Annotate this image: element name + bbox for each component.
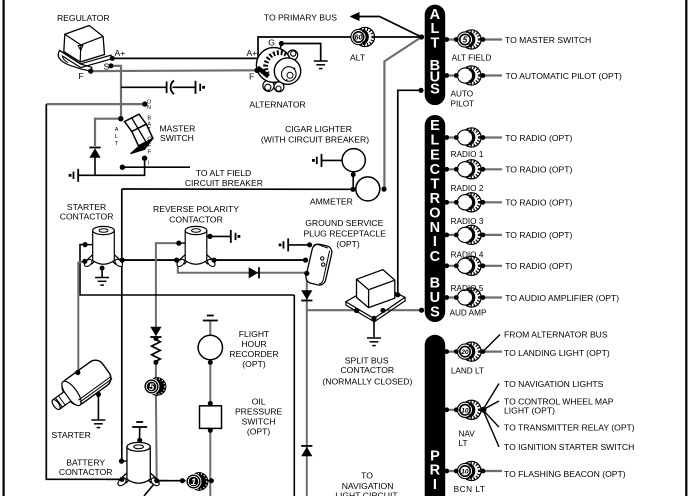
node split bus coil bbox=[371, 316, 376, 321]
svg-text:CIRCUIT BREAKER: CIRCUIT BREAKER bbox=[185, 178, 263, 188]
node OFF master switch bbox=[142, 156, 147, 161]
diode overvoltage column (points down) bbox=[150, 327, 161, 337]
flight hour recorder circle bbox=[198, 335, 222, 359]
wire battery contactor left overlay bbox=[106, 478, 123, 480]
breaker labels bbox=[450, 54, 492, 494]
wire overvoltage column resistor to 5 breaker bbox=[155, 361, 157, 380]
node BAT master switch bbox=[120, 165, 125, 170]
node starter contactor ground bbox=[100, 266, 105, 271]
node A+ regulator bbox=[110, 56, 115, 61]
svg-text:S: S bbox=[104, 62, 110, 72]
svg-text:TO IGNITION STARTER SWITCH: TO IGNITION STARTER SWITCH bbox=[504, 442, 634, 452]
ground starter motor bbox=[91, 420, 105, 428]
svg-text:ALT FIELD: ALT FIELD bbox=[452, 54, 492, 63]
svg-text:LIGHT (OPT): LIGHT (OPT) bbox=[504, 406, 555, 416]
svg-text:OIL: OIL bbox=[252, 397, 266, 407]
svg-text:O: O bbox=[147, 137, 152, 143]
master switch tiny labels bbox=[115, 100, 153, 167]
svg-text:AUTO: AUTO bbox=[451, 90, 474, 99]
wire split bus contactor coil ground bbox=[373, 318, 375, 337]
svg-text:BCN LT: BCN LT bbox=[454, 485, 486, 494]
svg-text:TO TRANSMITTER RELAY (OPT): TO TRANSMITTER RELAY (OPT) bbox=[504, 423, 635, 433]
svg-text:C: C bbox=[430, 249, 441, 265]
svg-text:STARTER: STARTER bbox=[52, 430, 91, 440]
wire starter contactor coil stub bbox=[85, 244, 94, 246]
svg-text:5: 5 bbox=[463, 35, 468, 44]
svg-text:(NORMALLY CLOSED): (NORMALLY CLOSED) bbox=[322, 376, 412, 386]
node breaker1 right bbox=[209, 478, 214, 483]
svg-text:CONTACTOR: CONTACTOR bbox=[169, 215, 223, 225]
svg-text:LT: LT bbox=[459, 439, 468, 448]
alternator bbox=[256, 48, 300, 92]
svg-text:60: 60 bbox=[354, 33, 363, 42]
starter motor bbox=[45, 357, 114, 418]
node electronic bus feed bbox=[419, 308, 424, 313]
svg-text:AUD AMP: AUD AMP bbox=[450, 309, 487, 318]
wire cigar lighter ground lead bbox=[322, 159, 343, 161]
wire battery contactor to 1 breaker bbox=[157, 480, 212, 482]
wire capacitor to ground bbox=[173, 86, 196, 88]
svg-text:TO MASTER SWITCH: TO MASTER SWITCH bbox=[505, 35, 591, 45]
svg-text:5: 5 bbox=[149, 382, 155, 393]
node starter contactor right bbox=[120, 258, 125, 263]
node split bus left bbox=[354, 308, 359, 313]
svg-text:S: S bbox=[430, 305, 440, 321]
node landlt row bbox=[444, 349, 449, 354]
node F alternator bbox=[254, 68, 260, 74]
node receptacle minus bbox=[307, 242, 312, 247]
svg-text:10: 10 bbox=[461, 469, 469, 476]
svg-text:RADIO 2: RADIO 2 bbox=[451, 184, 484, 193]
node F regulator bbox=[88, 69, 93, 74]
svg-text:T: T bbox=[147, 127, 151, 133]
svg-text:TO ALT FIELD: TO ALT FIELD bbox=[196, 168, 251, 178]
cigar lighter circle bbox=[342, 149, 365, 172]
node oil pressure switch bottom bbox=[208, 428, 213, 433]
svg-text:T: T bbox=[430, 35, 439, 51]
wire overvoltage column diode to resistor bbox=[155, 337, 157, 340]
node starter top bbox=[75, 370, 80, 375]
node radio1 row bbox=[444, 135, 449, 140]
wire starter contactor coil loop bbox=[80, 245, 294, 295]
wire ON to left rail bbox=[46, 103, 145, 105]
ground split bus contactor bbox=[367, 338, 381, 346]
wire split bus contactor feed bbox=[307, 309, 422, 311]
svg-text:S: S bbox=[430, 82, 440, 98]
node receptacle lower bbox=[304, 271, 309, 276]
svg-text:SWITCH: SWITCH bbox=[242, 416, 276, 426]
ground for capacitor bbox=[196, 81, 206, 94]
breaker row: RADIO 1 bbox=[447, 128, 503, 147]
svg-text:A+: A+ bbox=[115, 48, 126, 58]
svg-text:E: E bbox=[430, 147, 440, 163]
node battery contactor top bbox=[137, 438, 142, 443]
arrowhead to primary bus bbox=[350, 12, 360, 21]
ground service plug receptacle bbox=[305, 243, 333, 286]
svg-text:(OPT): (OPT) bbox=[247, 426, 271, 436]
svg-text:TO RADIO (OPT): TO RADIO (OPT) bbox=[505, 261, 572, 271]
ground alternator G bbox=[314, 61, 328, 69]
svg-text:TO RADIO (OPT): TO RADIO (OPT) bbox=[505, 133, 572, 143]
node ammeter right bbox=[381, 187, 386, 192]
svg-text:PILOT: PILOT bbox=[451, 100, 475, 109]
svg-text:CONTACTOR: CONTACTOR bbox=[60, 211, 114, 221]
wire reverse polarity main to diode run bbox=[177, 260, 306, 273]
node oil pressure switch top bbox=[208, 401, 213, 406]
wire capacitor branch bbox=[121, 86, 166, 88]
svg-text:F: F bbox=[148, 143, 152, 149]
breaker 60 ALT bbox=[351, 27, 375, 46]
node reverse polarity coil left bbox=[176, 241, 181, 246]
node ammeter left bbox=[350, 187, 355, 192]
wire reverse polarity coil to ground bbox=[210, 235, 231, 237]
wire starter contactor to starter bbox=[78, 261, 85, 372]
node radio2 row bbox=[444, 167, 449, 172]
node ON master switch bbox=[142, 101, 147, 106]
breaker row: RADIO 3 bbox=[447, 193, 503, 212]
node bcnlt row bbox=[444, 469, 449, 474]
wire receptacle down through diode to split bus tee bbox=[306, 273, 308, 496]
reverse polarity contactor bbox=[176, 226, 217, 268]
svg-text:CIGAR LIGHTER: CIGAR LIGHTER bbox=[285, 124, 352, 134]
ground starter contactor bbox=[95, 278, 109, 286]
ground receptacle minus bbox=[279, 238, 289, 251]
svg-text:(OPT): (OPT) bbox=[242, 359, 266, 369]
svg-text:RADIO 5: RADIO 5 bbox=[451, 284, 484, 293]
left rail down to battery contactor bbox=[46, 104, 122, 479]
svg-text:NAV: NAV bbox=[459, 430, 476, 439]
diode below receptacle (points down) bbox=[301, 290, 312, 300]
svg-text:ALTERNATOR: ALTERNATOR bbox=[249, 100, 305, 110]
svg-text:R: R bbox=[430, 463, 441, 479]
svg-text:CONTACTOR: CONTACTOR bbox=[340, 365, 394, 375]
svg-text:T: T bbox=[115, 141, 119, 147]
node starter contactor coil bbox=[83, 242, 88, 247]
svg-text:RECORDER: RECORDER bbox=[229, 349, 278, 359]
ammeter circle bbox=[356, 177, 380, 201]
page border left bbox=[3, 0, 5, 496]
node starter right bbox=[96, 392, 101, 397]
wire ALT bus diagonal to ammeter bbox=[384, 37, 421, 189]
breaker row: RADIO 5 bbox=[447, 256, 503, 275]
master switch rocker bbox=[125, 114, 154, 154]
svg-text:REVERSE POLARITY: REVERSE POLARITY bbox=[153, 204, 239, 214]
svg-text:G: G bbox=[268, 38, 275, 48]
svg-text:20: 20 bbox=[460, 349, 469, 356]
wire reverse polarity coil to overvoltage column bbox=[156, 243, 179, 327]
node ALT bus feed bbox=[419, 34, 424, 39]
ALT bus bar bbox=[425, 5, 446, 106]
svg-text:PLUG RECEPTACLE: PLUG RECEPTACLE bbox=[303, 229, 386, 239]
svg-text:TO AUTOMATIC PILOT (OPT): TO AUTOMATIC PILOT (OPT) bbox=[506, 71, 622, 81]
node ALT master switch bbox=[118, 116, 123, 121]
svg-text:LIGHT CIRCUIT: LIGHT CIRCUIT bbox=[335, 491, 398, 496]
svg-text:RADIO 1: RADIO 1 bbox=[451, 150, 484, 159]
svg-text:(OPT): (OPT) bbox=[336, 239, 360, 249]
node starter contactor left bbox=[82, 259, 87, 264]
breaker row: AUD AMP bbox=[447, 288, 503, 307]
diode on receptacle branch (points right) bbox=[249, 267, 259, 278]
svg-text:L: L bbox=[430, 133, 439, 149]
regulator bbox=[58, 26, 111, 72]
wire to primary bus arrow line bbox=[357, 17, 422, 38]
wire main battery run bbox=[122, 259, 305, 261]
svg-text:SWITCH: SWITCH bbox=[160, 133, 194, 143]
node auto pilot row bbox=[444, 73, 449, 78]
svg-text:AMMETER: AMMETER bbox=[310, 197, 353, 207]
starter contactor bbox=[83, 226, 124, 268]
node audamp row bbox=[444, 295, 449, 300]
split bus contactor bbox=[346, 270, 405, 322]
node navlt row bbox=[444, 407, 449, 412]
node radio4 row bbox=[444, 233, 449, 238]
svg-text:A+: A+ bbox=[247, 48, 258, 58]
svg-text:F: F bbox=[249, 72, 254, 82]
wire battery contactor coil stub bbox=[122, 460, 131, 462]
node flight hour recorder out bbox=[208, 360, 213, 365]
wire reverse polarity coil stub bbox=[179, 242, 187, 244]
svg-text:(WITH CIRCUIT BREAKER): (WITH CIRCUIT BREAKER) bbox=[261, 135, 369, 145]
ground master switch diode bbox=[69, 169, 79, 182]
svg-text:I: I bbox=[148, 161, 150, 167]
ground reverse polarity coil bbox=[231, 230, 241, 243]
ground battery contactor bbox=[132, 422, 147, 427]
node S regulator bbox=[109, 63, 114, 68]
svg-text:F: F bbox=[79, 71, 84, 81]
wire battery contactor top ground bbox=[139, 428, 141, 445]
node alt field row bbox=[444, 37, 449, 42]
wire ignition run down page bbox=[293, 295, 295, 496]
wire S down to master switch ALT bbox=[111, 66, 121, 119]
oil pressure switch box bbox=[200, 406, 222, 429]
breaker row: RADIO 2 bbox=[447, 160, 503, 179]
svg-text:TO: TO bbox=[361, 471, 373, 481]
node breaker1 left bbox=[180, 478, 185, 483]
wire ALT bus lower tap bbox=[398, 90, 421, 294]
svg-text:RADIO 3: RADIO 3 bbox=[451, 217, 484, 226]
svg-text:RADIO 4: RADIO 4 bbox=[451, 250, 484, 259]
PRI(MARY) bus bar bbox=[425, 335, 446, 496]
diode master switch bbox=[89, 148, 100, 158]
svg-text:TO RADIO (OPT): TO RADIO (OPT) bbox=[505, 230, 572, 240]
ELECTRONIC bus bar bbox=[425, 115, 446, 322]
svg-text:FROM ALTERNATOR BUS: FROM ALTERNATOR BUS bbox=[504, 330, 608, 340]
svg-text:GROUND SERVICE: GROUND SERVICE bbox=[305, 218, 383, 228]
breaker row: NAV LT 10 bbox=[447, 384, 500, 447]
diode to nav circuit (points up) bbox=[301, 446, 312, 456]
breaker row: BCN LT 10 bbox=[447, 461, 503, 480]
wire oil pressure column bbox=[209, 321, 211, 496]
svg-text:1: 1 bbox=[191, 477, 196, 488]
wire 5 breaker to battery contactor bbox=[155, 393, 158, 481]
svg-text:TO RADIO (OPT): TO RADIO (OPT) bbox=[505, 198, 572, 208]
ground flight hour recorder bbox=[203, 316, 218, 321]
wire starter to ground bbox=[97, 394, 99, 420]
node receptacle plus bbox=[303, 258, 308, 263]
wire reverse polarity coil right stub bbox=[204, 235, 210, 237]
svg-text:REGULATOR: REGULATOR bbox=[57, 13, 110, 23]
node radio5 row bbox=[444, 263, 449, 268]
wire G to ground bbox=[281, 44, 320, 61]
resistor overvoltage bbox=[152, 340, 161, 362]
svg-text:ALT: ALT bbox=[350, 53, 366, 63]
wire 60-breaker to ALT bus bbox=[373, 36, 422, 38]
svg-text:N: N bbox=[147, 105, 151, 111]
breaker row: ALT FIELD 5 bbox=[447, 30, 503, 49]
node cigar lighter bottom bbox=[351, 172, 356, 177]
svg-text:TO LANDING LIGHT (OPT): TO LANDING LIGHT (OPT) bbox=[504, 348, 610, 358]
svg-text:TO AUDIO AMPLIFIER (OPT): TO AUDIO AMPLIFIER (OPT) bbox=[505, 293, 619, 303]
svg-text:TO PRIMARY BUS: TO PRIMARY BUS bbox=[264, 12, 337, 22]
svg-text:TO RADIO (OPT): TO RADIO (OPT) bbox=[505, 165, 572, 175]
node split bus right bbox=[395, 292, 400, 297]
breaker row: AUTO PILOT bbox=[447, 66, 503, 85]
breaker row: LAND LT 20 bbox=[447, 335, 503, 362]
svg-text:SPLIT BUS: SPLIT BUS bbox=[345, 355, 389, 365]
svg-text:LAND LT: LAND LT bbox=[451, 367, 484, 376]
node overvoltage resistor bbox=[153, 360, 158, 365]
wire cigar lighter to ammeter node bbox=[352, 172, 354, 189]
svg-text:L: L bbox=[115, 134, 118, 140]
svg-text:HOUR: HOUR bbox=[241, 339, 266, 349]
node reverse polarity left bbox=[174, 258, 179, 263]
svg-text:TO FLASHING BEACON (OPT): TO FLASHING BEACON (OPT) bbox=[504, 469, 626, 479]
breaker 5 overvoltage (dark) bbox=[144, 377, 166, 396]
node radio3 row bbox=[444, 200, 449, 205]
svg-text:I: I bbox=[433, 477, 437, 493]
node ALT bus lower tap bbox=[418, 88, 423, 93]
breaker row: RADIO 4 bbox=[447, 225, 503, 244]
wire battery contactor right overlay bbox=[155, 480, 168, 482]
svg-text:10: 10 bbox=[461, 407, 469, 414]
ground cigar lighter bbox=[312, 154, 322, 167]
page border right bbox=[685, 0, 687, 496]
wire starter contactor ground lead bbox=[101, 268, 103, 277]
node reverse polarity right bbox=[211, 258, 216, 263]
capacitor C1 bbox=[167, 81, 174, 95]
wire ammeter corner down to battery contactor coil bbox=[121, 189, 123, 461]
wire battery contactor tail off page bbox=[144, 481, 157, 496]
wire ground run to OFF bbox=[78, 158, 144, 175]
svg-text:TO NAVIGATION LIGHTS: TO NAVIGATION LIGHTS bbox=[504, 379, 604, 389]
wire F regulator to alternator bbox=[91, 69, 258, 72]
svg-text:BATTERY: BATTERY bbox=[66, 457, 105, 467]
node G alternator bbox=[279, 41, 284, 46]
wire diode to ground run bbox=[94, 158, 96, 176]
node battery contactor right bbox=[154, 478, 159, 483]
svg-text:PRESSURE: PRESSURE bbox=[235, 407, 283, 417]
node battery contactor coil bbox=[119, 459, 124, 464]
svg-text:FLIGHT: FLIGHT bbox=[239, 329, 270, 339]
svg-text:A: A bbox=[115, 127, 119, 133]
wire ALT terminal to diode branch bbox=[95, 119, 121, 146]
svg-text:F: F bbox=[148, 149, 152, 155]
node battery contactor left bbox=[119, 477, 124, 482]
node split bus out bbox=[380, 308, 385, 313]
svg-text:I: I bbox=[433, 234, 437, 250]
wire ammeter run bbox=[122, 188, 353, 190]
node overvoltage diode bbox=[153, 336, 158, 341]
svg-text:CONTACTOR: CONTACTOR bbox=[59, 467, 113, 477]
wire A+ regulator to alternator riser bbox=[112, 37, 351, 58]
svg-text:MASTER: MASTER bbox=[160, 124, 196, 134]
svg-text:STARTER: STARTER bbox=[67, 202, 106, 212]
battery contactor bbox=[117, 442, 161, 487]
wire BAT bottom to alt field breaker label bbox=[122, 166, 190, 168]
breaker 1 battery (dark) bbox=[186, 472, 208, 491]
node reverse polarity coil right bbox=[207, 234, 212, 239]
wire receptacle minus to ground bbox=[288, 244, 310, 246]
